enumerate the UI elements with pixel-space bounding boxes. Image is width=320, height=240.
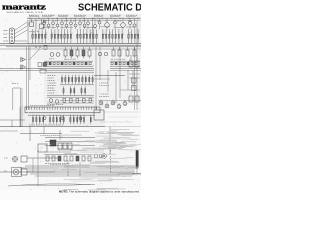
svg-text:SUN VALLEY, CALIF., U.S.A.: SUN VALLEY, CALIF., U.S.A. [7, 11, 45, 14]
svg-text:marantz: marantz [2, 2, 46, 11]
svg-text:SCHEMATIC D: SCHEMATIC D [78, 3, 141, 14]
svg-text:NOTE: The schematic diagram a: NOTE: The schematic diagram applied to u… [59, 190, 140, 193]
